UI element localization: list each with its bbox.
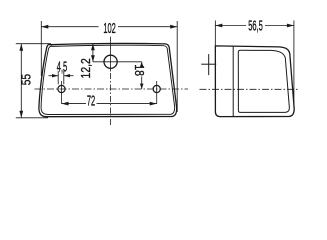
front view outer contour <box>39 43 177 116</box>
front view inner lens contour <box>41 45 175 114</box>
side view center line (dash-dot) <box>200 88 300 90</box>
svg-text:72: 72 <box>87 92 95 110</box>
dimension 55: dimension line <box>20 44 22 118</box>
dimension 4,5: tangent extension ticks <box>57 71 59 85</box>
side view outer contour <box>215 46 294 117</box>
dimension 102: extension lines <box>40 21 42 76</box>
side view housing/lens divider line <box>232 46 234 116</box>
side view mounting screw cross, horizontal <box>201 63 216 65</box>
dimension 18: dimension line <box>141 62 143 64</box>
right mounting hole <box>153 85 160 92</box>
dimension 4,5: arrow lines <box>49 75 59 77</box>
dimension 56,5: dimension line <box>215 25 246 27</box>
hole center line horizontal (dash-dot) <box>35 88 189 90</box>
front view vertical center line (dash-dot) <box>110 37 112 72</box>
svg-text:18: 18 <box>132 64 146 76</box>
dimension 72: dimension line <box>62 103 87 105</box>
svg-text:102: 102 <box>103 19 116 37</box>
dimension 55: extension lines <box>16 43 51 45</box>
dimension 102: dimension line <box>41 26 98 28</box>
dimension 12,2: dimension line <box>92 44 94 62</box>
circle horizontal crosshair / reference line <box>93 61 142 63</box>
side view mounting screw cross, vertical <box>208 54 210 75</box>
svg-text:56,5: 56,5 <box>248 17 263 35</box>
left hole vertical crosshair <box>61 81 63 104</box>
left mounting hole <box>58 85 65 92</box>
side view lens inner contour <box>238 50 289 112</box>
svg-text:55: 55 <box>19 74 33 85</box>
dimension 56,5: extension lines <box>214 21 216 47</box>
right hole vertical crosshair <box>156 81 158 104</box>
central circle (bulb holder) <box>104 55 117 68</box>
svg-text:4,5: 4,5 <box>57 58 68 76</box>
svg-text:12,2: 12,2 <box>79 58 93 78</box>
